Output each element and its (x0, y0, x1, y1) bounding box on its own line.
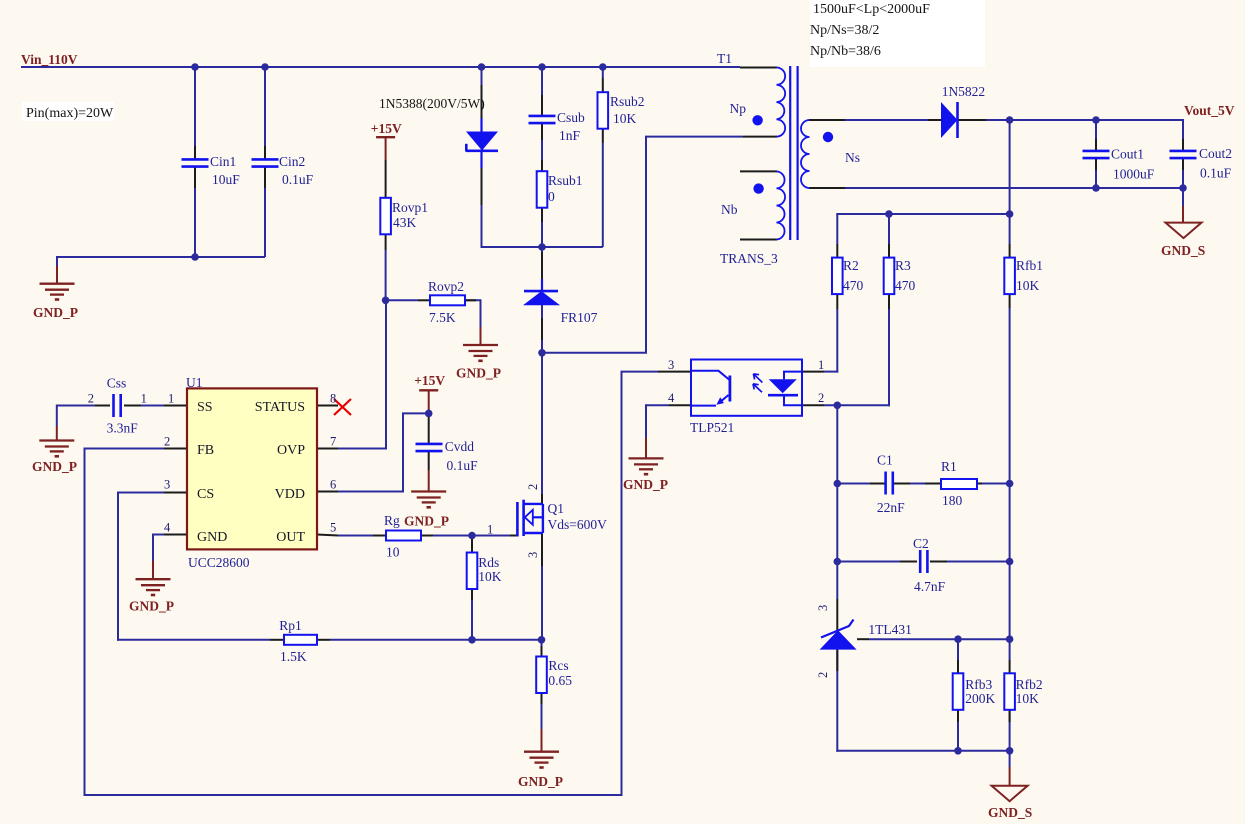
svg-text:Rsub2: Rsub2 (610, 94, 645, 109)
svg-text:10K: 10K (1016, 691, 1040, 706)
svg-text:GND_P: GND_P (518, 774, 563, 789)
svg-text:4: 4 (164, 521, 171, 535)
svg-text:7.5K: 7.5K (429, 310, 456, 325)
svg-text:UCC28600: UCC28600 (188, 555, 250, 570)
svg-text:OVP: OVP (277, 443, 305, 458)
svg-text:1000uF: 1000uF (1113, 167, 1155, 182)
svg-text:2: 2 (88, 392, 94, 406)
svg-text:Cin1: Cin1 (210, 154, 236, 169)
svg-text:Vds=600V: Vds=600V (548, 517, 608, 532)
svg-text:GND_S: GND_S (1161, 243, 1205, 258)
svg-text:Cin2: Cin2 (279, 154, 305, 169)
svg-text:T1: T1 (717, 51, 732, 66)
svg-text:5: 5 (330, 521, 336, 535)
svg-text:+15V: +15V (371, 121, 402, 136)
svg-text:C1: C1 (877, 453, 893, 468)
svg-text:Css: Css (107, 376, 127, 391)
svg-text:STATUS: STATUS (255, 400, 305, 415)
svg-text:43K: 43K (393, 215, 417, 230)
svg-text:8: 8 (330, 392, 336, 406)
svg-text:1.5K: 1.5K (280, 649, 307, 664)
svg-text:0.1uF: 0.1uF (447, 458, 479, 473)
svg-text:3: 3 (164, 478, 170, 492)
svg-text:Vout_5V: Vout_5V (1184, 103, 1235, 118)
svg-text:U1: U1 (186, 375, 203, 390)
svg-text:Rovp1: Rovp1 (392, 200, 428, 215)
svg-text:470: 470 (843, 278, 864, 293)
svg-text:GND_P: GND_P (456, 366, 501, 381)
svg-text:Rfb1: Rfb1 (1016, 258, 1043, 273)
svg-text:0.1uF: 0.1uF (1200, 166, 1232, 181)
svg-text:Rp1: Rp1 (279, 618, 302, 633)
svg-text:TLP521: TLP521 (690, 420, 734, 435)
svg-text:1TL431: 1TL431 (868, 622, 912, 637)
svg-text:6: 6 (330, 478, 336, 492)
svg-text:Cout2: Cout2 (1199, 146, 1232, 161)
svg-text:3.3nF: 3.3nF (107, 421, 139, 436)
svg-text:180: 180 (942, 493, 963, 508)
svg-text:Cout1: Cout1 (1111, 147, 1144, 162)
svg-text:GND_P: GND_P (623, 477, 668, 492)
svg-text:Rfb3: Rfb3 (965, 677, 992, 692)
svg-text:CS: CS (197, 487, 214, 502)
svg-text:1: 1 (168, 392, 174, 406)
svg-text:GND_P: GND_P (129, 599, 174, 614)
svg-text:Np/Ns=38/2: Np/Ns=38/2 (810, 23, 879, 38)
svg-text:FB: FB (197, 443, 214, 458)
svg-text:10K: 10K (613, 111, 637, 126)
svg-text:Csub: Csub (557, 110, 585, 125)
svg-text:Ns: Ns (845, 150, 860, 165)
svg-text:VDD: VDD (275, 487, 305, 502)
svg-text:7: 7 (330, 435, 336, 449)
svg-text:GND_S: GND_S (988, 805, 1032, 820)
svg-text:1: 1 (487, 523, 493, 537)
svg-text:SS: SS (197, 400, 213, 415)
svg-text:C2: C2 (913, 536, 929, 551)
svg-text:R3: R3 (895, 258, 911, 273)
svg-text:1: 1 (141, 392, 147, 406)
svg-text:0.1uF: 0.1uF (282, 172, 314, 187)
svg-text:1: 1 (818, 358, 824, 372)
svg-text:Rfb2: Rfb2 (1016, 677, 1043, 692)
svg-text:2: 2 (816, 672, 830, 678)
svg-text:Rsub1: Rsub1 (548, 173, 583, 188)
svg-text:4: 4 (668, 391, 675, 405)
svg-text:Rds: Rds (478, 555, 499, 570)
svg-text:+15V: +15V (414, 373, 445, 388)
svg-text:10K: 10K (1016, 278, 1040, 293)
svg-text:4.7nF: 4.7nF (914, 579, 946, 594)
svg-text:3: 3 (526, 552, 540, 558)
svg-text:Rovp2: Rovp2 (428, 279, 464, 294)
svg-text:470: 470 (895, 278, 916, 293)
svg-text:Nb: Nb (721, 202, 738, 217)
svg-text:GND_P: GND_P (32, 459, 77, 474)
svg-text:FR107: FR107 (561, 310, 598, 325)
svg-text:0.65: 0.65 (548, 673, 572, 688)
svg-text:Vin_110V: Vin_110V (21, 52, 78, 67)
svg-text:GND_P: GND_P (33, 305, 78, 320)
svg-text:1N5388(200V/5W): 1N5388(200V/5W) (379, 96, 485, 111)
svg-text:TRANS_3: TRANS_3 (720, 251, 778, 266)
svg-text:Np/Nb=38/6: Np/Nb=38/6 (810, 44, 881, 59)
svg-text:3: 3 (816, 605, 830, 611)
svg-text:Rcs: Rcs (548, 658, 568, 673)
svg-text:Pin(max)=20W: Pin(max)=20W (26, 106, 114, 121)
svg-text:R1: R1 (941, 459, 957, 474)
svg-text:0: 0 (548, 189, 555, 204)
svg-text:3: 3 (668, 358, 674, 372)
svg-text:1nF: 1nF (559, 128, 581, 143)
svg-text:GND: GND (197, 530, 227, 545)
svg-text:1N5822: 1N5822 (942, 84, 986, 99)
svg-text:10uF: 10uF (212, 172, 240, 187)
svg-text:Np: Np (730, 101, 747, 116)
svg-text:GND_P: GND_P (404, 514, 449, 529)
svg-text:10K: 10K (478, 569, 502, 584)
svg-text:2: 2 (818, 391, 824, 405)
svg-text:Q1: Q1 (548, 501, 565, 516)
svg-text:Cvdd: Cvdd (445, 439, 475, 454)
svg-text:200K: 200K (965, 691, 995, 706)
svg-text:R2: R2 (843, 258, 859, 273)
svg-text:10: 10 (386, 545, 400, 560)
svg-text:2: 2 (526, 484, 540, 490)
svg-text:22nF: 22nF (877, 500, 905, 515)
svg-text:1500uF<Lp<2000uF: 1500uF<Lp<2000uF (813, 2, 930, 17)
svg-text:OUT: OUT (276, 530, 305, 545)
svg-text:Rg: Rg (384, 513, 400, 528)
svg-text:2: 2 (164, 435, 170, 449)
